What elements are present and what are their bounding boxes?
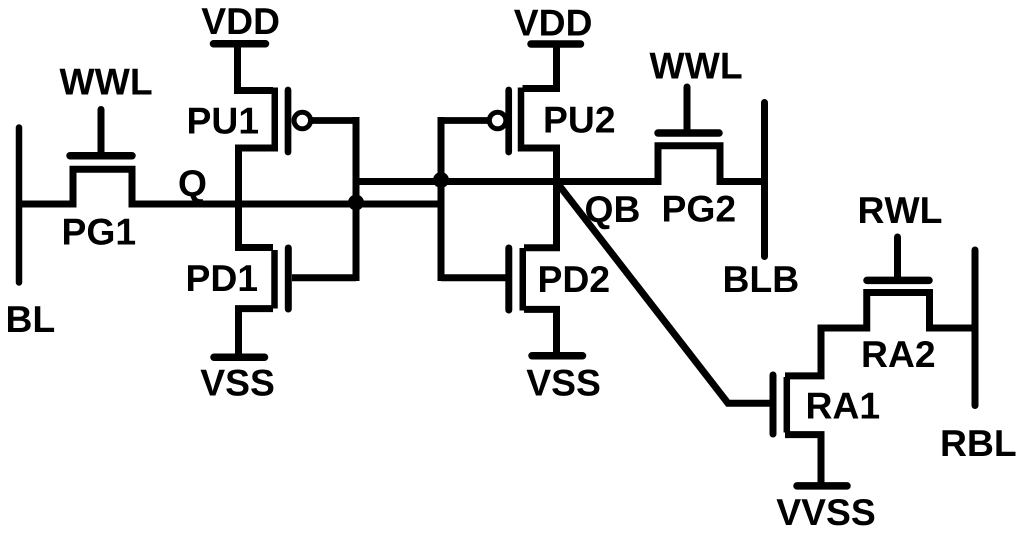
wire RA1 drain up to RA2 source xyxy=(785,328,821,376)
label node QB xyxy=(586,196,639,229)
ground VSS (right) xyxy=(532,352,583,360)
wire node Q: PG1 drain to inverter cross-coupling xyxy=(132,201,441,208)
wire PD1 gate lead xyxy=(292,274,356,281)
label VDD (right) xyxy=(514,10,591,36)
power VDD rail (right) xyxy=(531,40,581,48)
wire PD2 source to VSS xyxy=(524,309,557,353)
label PD1 xyxy=(188,265,257,291)
wire RA2 gate to RWL xyxy=(894,237,901,280)
label VDD (left) xyxy=(202,8,279,34)
transistor PD2 channel bar xyxy=(520,248,527,311)
label WWL (right) xyxy=(650,53,742,79)
label VSS (right) xyxy=(527,370,600,396)
label node Q xyxy=(180,170,206,203)
transistor RA2 gate bar xyxy=(867,277,929,285)
power VDD rail (left) xyxy=(214,40,266,48)
junction dot on node QB at inv2 gate line xyxy=(433,172,449,188)
wire PU1 gate lead xyxy=(311,117,357,124)
bit line RBL xyxy=(972,250,979,406)
label PU1 xyxy=(189,108,258,134)
transistor PU2 pmos bubble xyxy=(489,112,506,129)
wire PD1 source to VSS xyxy=(239,309,274,354)
ground VSS (left) xyxy=(214,354,265,362)
label WWL (left) xyxy=(60,69,152,95)
wire inverter2 gate vertical xyxy=(438,117,445,281)
wire node Q to PD1 drain xyxy=(239,204,274,248)
wire PG2 drain to BLB xyxy=(720,178,768,185)
label RA2 xyxy=(864,341,935,367)
label PG2 xyxy=(664,196,735,222)
junction dot on node Q at inv1 gate line xyxy=(348,195,364,211)
label VVSS xyxy=(777,499,875,525)
transistor PU1 channel bar xyxy=(272,88,279,152)
wire PG1 gate to WWL xyxy=(98,110,105,157)
transistor RA1 channel bar xyxy=(784,377,791,433)
wire RA1 source to VVSS xyxy=(785,435,821,483)
label BLB xyxy=(725,266,798,292)
wire inv2 drains vertical QB to PD2 xyxy=(524,182,557,248)
transistor RA2 channel and source/drain risers xyxy=(821,293,975,329)
ground VVSS xyxy=(797,482,847,490)
wire PD2 gate lead xyxy=(441,274,506,281)
label BL xyxy=(8,306,54,332)
transistor PU1 pmos bubble xyxy=(294,112,311,129)
label PU2 xyxy=(546,107,615,133)
wire node QB to RA1 gate (diagonal) xyxy=(557,182,770,403)
transistor PD1 gate bar xyxy=(285,248,292,309)
transistor RA1 gate bar xyxy=(770,375,777,434)
transistor PG2 gate bar xyxy=(658,129,719,137)
transistor PG1 gate bar xyxy=(70,152,132,160)
wire node QB horizontal xyxy=(356,178,658,185)
transistor PD2 gate bar xyxy=(505,248,512,310)
label RA1 xyxy=(808,393,879,419)
wire VDD to PU1 source xyxy=(238,44,274,91)
wire VDD to PU2 source xyxy=(523,44,557,89)
wire inverter1 gate vertical xyxy=(353,117,360,281)
label RBL xyxy=(943,430,1016,456)
transistor PU1 gate bar xyxy=(285,90,292,152)
transistor PU2 gate bar xyxy=(505,90,512,152)
label PG1 xyxy=(64,219,135,245)
bit line BL xyxy=(16,128,23,283)
transistor PG1 channel and source/drain risers xyxy=(73,169,132,204)
transistor PD1 channel bar xyxy=(271,250,278,309)
label PD2 xyxy=(540,266,609,292)
transistor PU2 channel bar xyxy=(518,88,525,152)
label RWL xyxy=(860,197,941,223)
wire BL to PG1 source xyxy=(16,201,73,208)
wire PG2 gate to WWL xyxy=(684,87,691,133)
wire PU2 gate lead xyxy=(441,117,489,124)
wire PU2 drain to node QB xyxy=(523,148,557,182)
wire PU1 drain to node Q xyxy=(239,148,274,204)
label VSS (left) xyxy=(201,370,274,396)
transistor PG2 channel and source/drain risers xyxy=(658,146,720,182)
bit line BLB xyxy=(761,103,768,257)
